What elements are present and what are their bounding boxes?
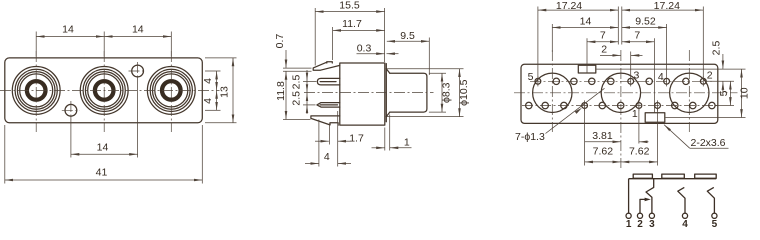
dim 11.7 line [333,29,385,31]
jack J2 thick insulator ring [95,81,114,100]
svg-text:2.5: 2.5 [291,91,303,106]
dim 9.5 extension line [428,38,430,76]
bottom slot horizontal extension to right dims [666,117,746,119]
dim 17.24 left line [538,9,618,11]
dim phi10.5 line [459,69,461,117]
svg-text:3: 3 [649,219,655,229]
dim 0.7/11.8 extension lines [283,67,312,69]
mounting collar step line [385,64,387,122]
svg-text:2.5: 2.5 [291,75,303,90]
bottom mounting slot [645,113,665,123]
pin 3 terminal [649,213,654,218]
top-left wing tab [313,62,340,70]
top pin row centerline [530,80,712,82]
jack J3 thick insulator ring [162,81,181,100]
dim 4 arrows [305,163,319,165]
dim 41 extension lines [4,125,6,184]
pin 3 switch contact [646,179,654,214]
dim 11.7 extension line [332,27,334,60]
jack J1 thick insulator ring [27,81,46,100]
dim 1 arrows [372,147,385,149]
dim 10 right line [741,69,743,117]
svg-text:5: 5 [528,71,534,83]
dim 1.7 arrows [315,140,329,142]
svg-text:17.24: 17.24 [654,0,680,12]
barrel phi8.3 [390,73,427,112]
dim 13 extension lines [205,57,237,59]
upper lug slot line [320,81,336,83]
pin hole 3 [628,76,634,86]
vertical centerline J1 [35,51,37,132]
svg-text:5: 5 [718,90,730,96]
svg-text:5: 5 [712,219,718,229]
dim 15.5 line [315,11,384,13]
pin 1 terminal [626,213,631,218]
vertical centerline J3 [170,51,172,132]
dim phi10.5 extension lines [387,68,464,70]
jack J3 outer rings [147,67,195,115]
horizontal centerline view3 [514,92,738,94]
body outline rounded rectangle [5,58,203,123]
dim phi8.3 line [441,73,443,112]
dim 2.5/2.5 extension lines [303,81,317,83]
svg-text:14: 14 [97,141,109,153]
body bottom notch [330,123,338,126]
jack J1 outer rings [12,67,60,115]
pin hole 4 [664,76,670,86]
bottom-left wing tab [311,116,340,125]
vertical centerline C2 [620,50,622,168]
svg-text:1: 1 [404,137,410,149]
svg-text:11.7: 11.7 [342,18,362,30]
svg-text:0.3: 0.3 [357,42,372,54]
svg-text:15.5: 15.5 [339,0,360,12]
dim 3.81 [638,109,640,144]
dim 14 bottom line [71,153,138,155]
svg-text:4: 4 [202,78,214,84]
jack circle C2 [601,73,640,112]
svg-text:7: 7 [634,29,640,41]
svg-text:1.7: 1.7 [349,133,364,145]
dim 1 (collar) extension lines [384,128,386,151]
pin hole 1 [636,100,642,110]
svg-text:3.81: 3.81 [592,130,613,142]
dim 14 line [552,27,618,29]
top slot horizontal extension to right dims [597,68,746,70]
ground bus [629,178,717,180]
svg-text:3: 3 [633,69,639,81]
svg-text:7.62: 7.62 [593,146,614,158]
dim 7 right extension line [653,38,655,112]
svg-text:11.8: 11.8 [275,81,287,101]
pin 1 wire [628,179,630,214]
svg-text:7-ϕ1.3: 7-ϕ1.3 [515,131,545,143]
jack circle C3 [670,73,709,112]
vertical centerline C1 [551,50,553,132]
dim 7.62 extension lines [584,109,586,166]
dim 5 right line [729,81,731,105]
mounting hole top (between J2,J3) [132,65,144,77]
dim 0.7 left: arrow and text [285,50,287,68]
dim 7 right line [622,41,655,43]
dim 13 line [232,58,234,123]
svg-text:4: 4 [202,98,214,104]
svg-text:10: 10 [739,87,751,99]
dim 14 top-left line [36,36,104,38]
pin hole mid-left (7-phi1.3 target) [582,100,588,110]
dim 7 left line [587,41,618,43]
dim 7 left extension line [586,38,588,73]
svg-text:2-2x3.6: 2-2x3.6 [691,137,726,149]
pin 2 wire with arrow [640,199,647,213]
dim 11.8 line [285,71,287,119]
top nub on body [327,62,333,63]
upper solder lug [317,78,339,85]
svg-text:0.7: 0.7 [274,34,286,49]
vertical centerline J2 [103,51,105,132]
dim 17.24 left extension lines [537,7,539,78]
barrel chamfer bottom [386,112,390,117]
dim 17.24 right line [622,9,704,11]
dim 2.5 right: arrow and text [722,54,724,69]
svg-text:14: 14 [580,15,592,27]
top mounting slot [578,65,596,73]
dim 7.62 left line [585,161,621,163]
svg-text:4: 4 [658,71,664,83]
jack J2 outer rings [80,67,128,115]
dim 4 upper line [216,71,218,90]
dim 14 top-right line [104,36,171,38]
dim 14 extension line [551,24,553,52]
svg-text:9.52: 9.52 [635,15,656,27]
svg-text:7.62: 7.62 [629,146,650,158]
plain holes bottom row [526,102,716,108]
svg-text:ϕ8.3: ϕ8.3 [441,82,453,103]
barrel chamfer top [386,69,390,74]
svg-text:9.5: 9.5 [400,30,415,42]
dim 15.5 extension lines [314,8,316,66]
shield contact box 1 [633,174,652,178]
side view horizontal centerline [304,92,434,94]
dim 4 extension line [318,120,320,167]
bottom row extension right [716,105,735,107]
svg-text:ϕ10.5: ϕ10.5 [458,79,470,105]
svg-text:1: 1 [626,219,632,229]
dim 17.24 right extension lines [621,7,623,45]
bottom pin row centerline [522,105,719,107]
svg-text:2: 2 [601,43,607,55]
pin hole 2 [700,76,706,86]
svg-text:4: 4 [682,219,688,229]
svg-text:13: 13 [218,86,230,98]
pin 5 terminal [712,213,717,218]
svg-text:14: 14 [132,24,144,36]
dim 9.5 line [387,40,430,42]
vertical centerline C3 [688,50,690,132]
pin hole 5 (phi1.3) [535,76,541,86]
svg-text:4: 4 [324,151,330,163]
plain holes top row [553,78,689,84]
svg-text:2: 2 [637,219,643,229]
shield contact box 3 [695,174,717,178]
dim 9.52 line [622,27,667,29]
mounting hole bottom (between J1,J2) [65,104,77,116]
svg-text:17.24: 17.24 [556,0,582,12]
lower lug slot line [320,104,337,106]
centerline mounting hole bottom [70,101,72,120]
svg-text:41: 41 [96,167,108,179]
body rectangle [340,63,385,125]
pin 5 switch contact [707,187,714,213]
pin hole mid-right [655,100,661,110]
lower solder lug [317,103,340,108]
pin 4 switch contact [678,187,685,213]
dim 14 top-left : extension lines [35,32,37,57]
shield contact box 2 [662,174,685,178]
pin 4 terminal [682,213,687,218]
pin 2 terminal [637,213,642,218]
pin2 row extension right [707,80,734,82]
dim 9.52 extension line [666,24,668,76]
dim 4 lower line [216,90,218,110]
dim 4/4 extension lines right [205,70,221,72]
svg-text:7: 7 [600,29,606,41]
dim 2.5 upper line [306,70,308,114]
dim 1.7 extension lines [329,124,331,145]
horizontal centerline through jacks [0,89,220,91]
dim 7.62 right line [621,161,658,163]
dim 41 line [5,179,203,181]
dim phi8.3 extension lines [429,72,446,74]
dim 2 arrows [600,54,621,56]
base plate rectangle [521,64,718,123]
svg-text:2: 2 [707,70,713,82]
svg-text:1: 1 [632,108,638,120]
dim 2.5 lower line [306,84,308,92]
centerline mounting hole top [137,62,139,80]
svg-text:14: 14 [62,24,74,36]
svg-text:2.5: 2.5 [710,41,722,56]
jack circle C1 [533,73,572,112]
dim 14 bottom (hole spacing) extension lines [70,117,72,158]
